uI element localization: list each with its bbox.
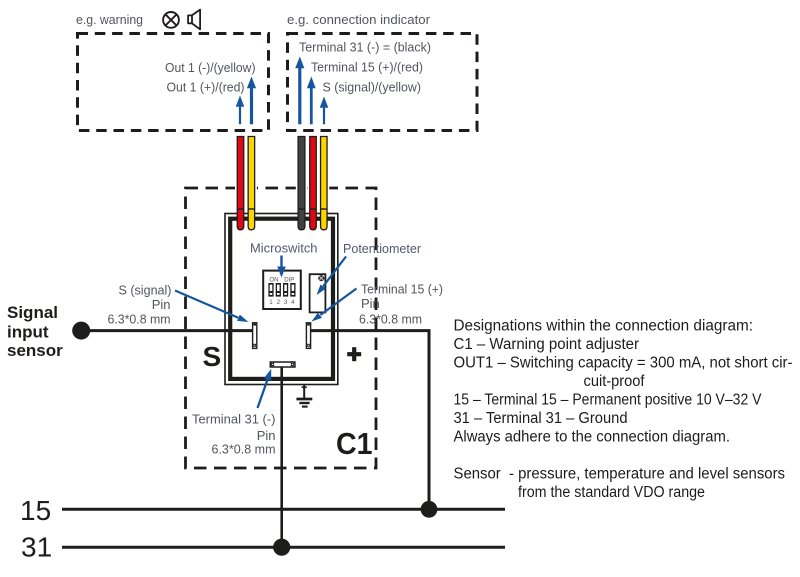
svg-text:input: input [7,323,49,342]
svg-text:Pin: Pin [361,296,380,311]
potentiometer R1 [310,274,326,312]
wire terminal 31 down [280,365,283,547]
svg-text:2: 2 [277,299,281,306]
wire bus 31 [62,546,505,549]
svg-text:DIP: DIP [284,276,294,283]
svg-text:6.3*0.8 mm: 6.3*0.8 mm [359,311,422,326]
wire terminal 15 to bus 15 [311,331,429,510]
svg-text:Out 1 (-)/(yellow): Out 1 (-)/(yellow) [165,60,256,75]
connection indicator box [288,34,478,131]
pin terminal 31 [270,362,295,367]
wire OUT1 red [237,137,244,230]
arrow terminal 15 to pin [312,289,357,322]
svg-text:Terminal 31 (-): Terminal 31 (-) [192,412,276,427]
wire red terminal 15 [310,137,317,230]
svg-text:Out 1 (+)/(red): Out 1 (+)/(red) [167,80,245,95]
svg-text:Terminal 15 (+): Terminal 15 (+) [361,281,443,296]
arrow S signal to pin [175,291,249,323]
buzzer icon [188,10,200,30]
wire sensor to pin S [81,329,253,332]
svg-text:ON: ON [269,276,278,283]
svg-text:31: 31 [21,532,52,563]
svg-text:e.g. connection indicator: e.g. connection indicator [287,12,431,27]
svg-text:Pin: Pin [152,297,171,312]
arrow signal yellow [320,97,329,125]
svg-text:Designations within the connec: Designations within the connection diagr… [454,318,754,335]
microswitch S1 [263,271,301,309]
wire yellow signal [321,137,328,230]
pin + terminal 15 [306,323,310,349]
node junction 15 [421,501,438,518]
wire OUT1 yellow [248,137,255,230]
svg-text:S: S [203,341,222,372]
svg-text:Microswitch: Microswitch [250,241,318,256]
svg-text:Sensor - pressure, temperatur: Sensor - pressure, temperature and level… [454,466,786,483]
svg-text:Terminal 31 (-) = (black): Terminal 31 (-) = (black) [299,39,431,54]
arrow out1 red [236,96,245,125]
svg-text:C1: C1 [336,426,373,461]
C1 dashed box [186,188,377,468]
svg-text:e.g. warning: e.g. warning [76,12,143,27]
arrow terminal 15 red [307,77,316,125]
svg-text:C1 – Warning point adjuster: C1 – Warning point adjuster [454,336,640,353]
wire black terminal 31 [298,137,305,230]
svg-text:cuit-proof: cuit-proof [584,373,646,390]
svg-text:4: 4 [291,299,295,306]
svg-text:Terminal 15 (+)/(red): Terminal 15 (+)/(red) [311,60,423,75]
indicator lamp icon [163,12,179,28]
arrow to potentiometer [317,257,347,296]
svg-text:15 – Terminal 15 – Permanent p: 15 – Terminal 15 – Permanent positive 10… [454,392,763,409]
svg-text:S (signal): S (signal) [119,282,172,297]
svg-text:sensor: sensor [7,341,63,360]
designations text block [454,318,793,502]
node junction 31 [273,539,290,556]
adjuster C1 body outer [225,214,338,385]
svg-text:15: 15 [20,495,51,526]
arrow to microswitch [277,256,286,278]
wire bus 15 [62,508,505,511]
label Signal input sensor [7,303,63,360]
svg-text:1: 1 [269,299,273,306]
arrow out1 yellow [247,77,256,125]
wire halos [235,135,329,212]
svg-text:3: 3 [284,299,288,306]
label + [347,347,361,361]
svg-text:6.3*0.8 mm: 6.3*0.8 mm [108,311,171,326]
svg-text:OUT1 – Switching capacity = 30: OUT1 – Switching capacity = 300 mA, not … [454,355,793,372]
adjuster C1 body inner frame [230,219,333,379]
node sensor input [72,322,90,340]
svg-text:S (signal)/(yellow): S (signal)/(yellow) [323,80,422,95]
arrow terminal 31 black [295,57,304,125]
ground [296,385,312,407]
svg-text:31 – Terminal 31 – Ground: 31 – Terminal 31 – Ground [454,410,628,427]
pin S [253,323,257,349]
svg-text:6.3*0.8 mm: 6.3*0.8 mm [212,442,276,457]
warning box [78,34,269,131]
svg-text:Always adhere to the connectio: Always adhere to the connection diagram. [454,429,731,446]
svg-text:Signal: Signal [7,303,58,322]
svg-text:from the standard VDO range: from the standard VDO range [518,484,705,501]
svg-text:Potentiometer: Potentiometer [343,241,422,256]
arrow terminal 31 to pin [258,369,272,408]
